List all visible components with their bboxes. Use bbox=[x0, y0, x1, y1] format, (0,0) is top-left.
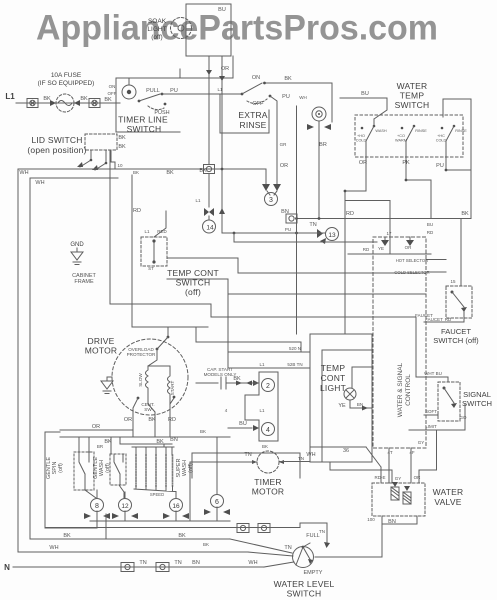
svg-text:RD: RD bbox=[346, 211, 354, 217]
wire into node 2 bbox=[228, 382, 252, 384]
svg-text:RD-E: RD-E bbox=[375, 475, 386, 480]
winding coil 2 bbox=[145, 455, 147, 486]
svg-text:TN: TN bbox=[174, 560, 181, 566]
svg-text:(off): (off) bbox=[58, 463, 64, 473]
motor winding slow bbox=[146, 366, 149, 394]
wire WLS diagonals bbox=[230, 539, 294, 567]
svg-text:L1: L1 bbox=[5, 92, 15, 101]
svg-text:BU: BU bbox=[239, 421, 247, 427]
svg-text:RD: RD bbox=[133, 208, 141, 214]
soak light box bbox=[186, 4, 231, 56]
svg-text:WATER: WATER bbox=[397, 81, 428, 91]
connector CB3 bbox=[204, 165, 215, 174]
winding header bbox=[111, 437, 174, 455]
svg-text:BU: BU bbox=[361, 91, 369, 97]
svg-text:TEMP: TEMP bbox=[400, 91, 425, 101]
node 6 arrows bbox=[204, 509, 230, 515]
svg-text:LIMIT: LIMIT bbox=[425, 424, 437, 429]
svg-text:14: 14 bbox=[206, 225, 214, 232]
svg-text:OR: OR bbox=[124, 417, 132, 423]
wire WSC row1 bbox=[348, 253, 431, 255]
svg-text:SWITCH: SWITCH bbox=[395, 100, 430, 110]
svg-text:PU: PU bbox=[170, 88, 178, 94]
node 14 bbox=[203, 220, 216, 233]
winding footer bbox=[134, 486, 174, 492]
extra rinse box bbox=[220, 94, 269, 133]
svg-text:SWITCH: SWITCH bbox=[176, 278, 211, 288]
wire extra rinse out BK bbox=[266, 83, 332, 122]
gentle wash contacts bbox=[114, 454, 123, 485]
node 12 arrows bbox=[112, 513, 138, 519]
water temp switch outer right bbox=[443, 99, 471, 219]
centrifugal switch bbox=[133, 396, 175, 437]
svg-text:TN: TN bbox=[298, 456, 304, 461]
svg-text:BN: BN bbox=[192, 560, 200, 566]
svg-text:LIGHT: LIGHT bbox=[147, 26, 166, 33]
extra rinse switch bbox=[241, 82, 272, 104]
svg-text:13: 13 bbox=[328, 232, 336, 239]
winding coil 3 bbox=[155, 455, 157, 486]
svg-text:ON: ON bbox=[252, 75, 260, 81]
svg-text:GR: GR bbox=[280, 142, 288, 147]
WTS cell 3 bbox=[441, 125, 456, 157]
WSC entry YE bbox=[345, 201, 390, 255]
svg-text:6: 6 bbox=[215, 499, 219, 506]
svg-text:WATER: WATER bbox=[433, 487, 464, 497]
svg-text:COLD: COLD bbox=[436, 139, 447, 143]
node 13 bbox=[326, 228, 339, 241]
svg-text:WHT BU: WHT BU bbox=[424, 371, 442, 376]
wire timer motor left bbox=[190, 462, 257, 521]
svg-text:DRIVE: DRIVE bbox=[88, 336, 115, 346]
wire run 520 N bbox=[228, 351, 310, 353]
wire N bus bbox=[13, 566, 264, 568]
wire long BK bus bbox=[297, 218, 471, 220]
svg-text:CONTROL: CONTROL bbox=[405, 374, 412, 406]
svg-text:BK: BK bbox=[104, 439, 112, 445]
timer line switch pilot bbox=[122, 78, 136, 99]
svg-text:+HO: +HO bbox=[357, 134, 365, 138]
svg-text:4: 4 bbox=[225, 408, 228, 413]
svg-text:SLOW: SLOW bbox=[138, 373, 143, 387]
valve arrows bbox=[392, 482, 410, 491]
node 14 arrows bbox=[204, 208, 214, 216]
label GENTLE WASH bbox=[93, 457, 111, 479]
svg-text:GND: GND bbox=[70, 242, 84, 248]
svg-text:BR: BR bbox=[319, 142, 327, 148]
gentle spin switch bbox=[74, 452, 94, 490]
svg-text:10: 10 bbox=[117, 163, 123, 168]
svg-text:BK: BK bbox=[203, 542, 209, 547]
svg-text:WATER & SIGNAL: WATER & SIGNAL bbox=[397, 362, 404, 417]
svg-text:BK: BK bbox=[233, 376, 241, 382]
timer line switch contacts bbox=[138, 93, 167, 110]
wire winding links bbox=[119, 485, 176, 498]
node 8 arrows bbox=[84, 513, 110, 519]
svg-text:12: 12 bbox=[121, 503, 129, 510]
node 12 bbox=[119, 499, 132, 512]
svg-text:FULL: FULL bbox=[306, 533, 319, 539]
svg-text:MOTOR: MOTOR bbox=[85, 346, 117, 356]
wire into node 3 bbox=[266, 169, 277, 195]
svg-text:ON: ON bbox=[109, 84, 116, 89]
WTS cell 1 bbox=[361, 125, 376, 157]
svg-text:BK: BK bbox=[178, 533, 186, 539]
svg-text:BK: BK bbox=[63, 533, 71, 539]
svg-text:(IF SO EQUIPPED): (IF SO EQUIPPED) bbox=[38, 80, 95, 87]
svg-text:BK: BK bbox=[104, 97, 112, 103]
svg-text:SPEED: SPEED bbox=[150, 492, 164, 497]
svg-text:4F: 4F bbox=[409, 450, 415, 455]
valve solenoid 2 bbox=[403, 492, 411, 504]
node 13 arrows bbox=[317, 229, 326, 244]
svg-text:8: 8 bbox=[95, 503, 99, 510]
cap arrows bbox=[236, 381, 252, 386]
svg-text:WATER LEVEL: WATER LEVEL bbox=[274, 579, 335, 589]
svg-text:BU: BU bbox=[218, 7, 226, 13]
svg-text:SWITCH: SWITCH bbox=[462, 399, 492, 408]
svg-text:RED: RED bbox=[157, 229, 167, 234]
temp cont light circle bbox=[344, 388, 356, 400]
svg-text:15: 15 bbox=[450, 279, 456, 284]
svg-text:OR: OR bbox=[414, 475, 422, 480]
wire signal feed bbox=[416, 377, 448, 382]
wire L1 feed bbox=[16, 102, 120, 104]
node 9 bbox=[312, 107, 326, 121]
svg-text:RINSE: RINSE bbox=[455, 129, 467, 133]
temp light top wire bbox=[352, 367, 372, 388]
wire left bus 1 bbox=[18, 169, 248, 552]
svg-text:RINSE: RINSE bbox=[240, 120, 267, 130]
wire stair A bbox=[234, 233, 377, 242]
svg-text:BK: BK bbox=[199, 168, 207, 174]
svg-text:(open position): (open position) bbox=[27, 145, 86, 155]
svg-text:RD: RD bbox=[445, 317, 452, 322]
svg-text:4: 4 bbox=[266, 427, 270, 434]
svg-text:BK: BK bbox=[133, 170, 139, 175]
timer motor box bbox=[192, 453, 300, 478]
wire faucet bottom bbox=[424, 321, 464, 323]
wire soak drop 2 bbox=[221, 56, 223, 233]
wire stair D bbox=[110, 304, 416, 377]
wire OR from WTS bbox=[345, 157, 366, 191]
svg-text:BK: BK bbox=[118, 144, 126, 150]
svg-text:OR: OR bbox=[221, 66, 229, 72]
svg-text:(off): (off) bbox=[185, 287, 201, 297]
svg-text:OFF: OFF bbox=[108, 91, 117, 96]
svg-text:+CO: +CO bbox=[397, 134, 405, 138]
temp cont switch feed bbox=[132, 175, 208, 327]
temp cont sensor bbox=[152, 211, 166, 264]
svg-text:N: N bbox=[4, 563, 10, 572]
motor ground bbox=[101, 377, 113, 394]
water temp switch dashed box bbox=[355, 115, 463, 157]
svg-text:TN: TN bbox=[139, 560, 146, 566]
faucet switch contact bbox=[451, 291, 468, 323]
svg-text:FAUCET: FAUCET bbox=[415, 313, 433, 318]
winding coil 5 bbox=[172, 455, 174, 486]
motor winding start bbox=[168, 372, 171, 400]
svg-text:OFF: OFF bbox=[253, 101, 265, 107]
svg-text:WH: WH bbox=[306, 452, 315, 458]
svg-text:GY: GY bbox=[418, 440, 425, 445]
svg-text:WH: WH bbox=[49, 545, 58, 551]
wire node13 feed bbox=[222, 232, 317, 234]
svg-text:GO: GO bbox=[459, 415, 467, 420]
wire left bus 2 bbox=[30, 178, 230, 539]
water signal control box bbox=[373, 237, 426, 448]
timer motor arrows bbox=[252, 460, 284, 464]
svg-text:BR: BR bbox=[97, 444, 104, 449]
water level switch circle bbox=[293, 547, 314, 568]
wire WSC bottom drops bbox=[389, 448, 411, 483]
svg-text:BK: BK bbox=[118, 135, 126, 141]
drive motor circle bbox=[112, 339, 188, 415]
wire run 52B TN bbox=[228, 367, 310, 369]
svg-text:OR: OR bbox=[280, 163, 288, 169]
svg-text:TIMER LINE: TIMER LINE bbox=[118, 115, 168, 125]
WSC arrows top bbox=[381, 240, 414, 246]
svg-text:PU: PU bbox=[282, 94, 290, 100]
wire valve top runs bbox=[310, 447, 392, 483]
svg-text:TEMP CONT: TEMP CONT bbox=[167, 268, 219, 278]
svg-text:START: START bbox=[170, 380, 175, 395]
water temp switch feed BU bbox=[340, 98, 387, 126]
svg-text:YE: YE bbox=[338, 403, 346, 409]
svg-text:ST: ST bbox=[148, 266, 154, 271]
ground bbox=[71, 248, 83, 265]
svg-text:WASH: WASH bbox=[375, 129, 387, 133]
winding coil 1 bbox=[135, 455, 137, 486]
water valve box bbox=[372, 483, 425, 516]
gentle wash switch bbox=[110, 454, 126, 485]
svg-text:OR: OR bbox=[405, 245, 413, 250]
label SUPER WASH bbox=[176, 458, 194, 477]
wire signal right bbox=[409, 404, 465, 430]
wire extra rinse out PU bbox=[270, 96, 277, 184]
connector CB5 bbox=[258, 524, 270, 533]
svg-text:EXTRA: EXTRA bbox=[238, 110, 267, 120]
signal switch contact bbox=[443, 387, 458, 409]
node 2 bbox=[262, 379, 275, 392]
wire cap to node2 bbox=[252, 382, 258, 384]
svg-text:TN: TN bbox=[319, 529, 325, 534]
wire stair E2 bbox=[196, 327, 301, 352]
svg-text:SWITCH: SWITCH bbox=[127, 124, 162, 134]
svg-text:OR: OR bbox=[92, 424, 100, 430]
svg-text:EMPTY: EMPTY bbox=[304, 570, 323, 576]
wire bottom right runs bbox=[300, 523, 327, 544]
temp cont light arrow bbox=[362, 406, 368, 411]
svg-text:L1: L1 bbox=[217, 87, 223, 92]
node 16 arrows bbox=[163, 513, 189, 519]
svg-text:520 N: 520 N bbox=[289, 346, 301, 351]
svg-text:(off): (off) bbox=[105, 463, 111, 473]
svg-text:2: 2 bbox=[266, 383, 270, 390]
svg-text:L1: L1 bbox=[259, 362, 265, 367]
node 6 bbox=[211, 495, 224, 508]
svg-text:BK: BK bbox=[262, 444, 268, 449]
svg-text:L1: L1 bbox=[259, 408, 265, 413]
svg-text:MODELS ONLY: MODELS ONLY bbox=[204, 372, 237, 377]
svg-text:16: 16 bbox=[172, 503, 180, 510]
WTS cell 2 bbox=[401, 125, 416, 157]
windings bus top bbox=[60, 430, 230, 437]
wire cap feed bbox=[196, 382, 218, 384]
svg-text:WH: WH bbox=[35, 180, 44, 186]
wire lower bus 521 bbox=[90, 520, 230, 522]
wire stair B bbox=[167, 258, 426, 273]
wire stair E bbox=[296, 106, 298, 219]
svg-text:FRAME: FRAME bbox=[74, 279, 94, 285]
svg-text:BK: BK bbox=[284, 76, 292, 82]
temp light inner lines bbox=[322, 350, 372, 462]
svg-text:PUSH: PUSH bbox=[154, 110, 169, 116]
svg-text:SW: SW bbox=[144, 407, 152, 412]
svg-text:RINSE: RINSE bbox=[415, 129, 427, 133]
timer line switch box bbox=[116, 56, 233, 132]
wire PU from WTS bbox=[446, 157, 471, 170]
svg-text:(off): (off) bbox=[151, 34, 162, 41]
wire node drops bbox=[97, 437, 217, 521]
wire stair C bbox=[167, 279, 426, 368]
svg-text:GY: GY bbox=[395, 476, 402, 481]
svg-text:PU: PU bbox=[436, 163, 444, 169]
node 2/4 box bbox=[245, 372, 278, 441]
svg-text:BK: BK bbox=[43, 96, 51, 102]
wire temp light feed bbox=[344, 191, 346, 334]
wire node 9 drop bbox=[318, 121, 320, 219]
svg-text:RD: RD bbox=[168, 417, 176, 423]
svg-text:SOAK: SOAK bbox=[148, 18, 167, 25]
temp light outer box bbox=[310, 334, 372, 462]
WSC entry drops bbox=[385, 237, 410, 240]
svg-text:MOTOR: MOTOR bbox=[252, 487, 284, 497]
wire into node 4 bbox=[228, 427, 252, 429]
junction dots bbox=[221, 168, 448, 235]
node 8 bbox=[91, 499, 104, 512]
svg-text:L1: L1 bbox=[144, 229, 150, 234]
wire PK from WTS bbox=[406, 157, 431, 219]
svg-text:BN: BN bbox=[388, 519, 396, 525]
capacitor C1 bbox=[221, 377, 234, 389]
svg-text:WH: WH bbox=[19, 170, 28, 176]
windings outer box left bbox=[45, 432, 97, 528]
faucet switch box bbox=[446, 286, 472, 318]
svg-text:VALVE: VALVE bbox=[434, 497, 461, 507]
svg-text:OR: OR bbox=[359, 160, 367, 166]
svg-text:SIGNAL: SIGNAL bbox=[463, 390, 491, 399]
svg-text:COLD: COLD bbox=[356, 139, 367, 143]
svg-text:YE: YE bbox=[378, 246, 384, 251]
svg-text:(off): (off) bbox=[188, 463, 194, 473]
svg-text:TN: TN bbox=[309, 222, 316, 228]
svg-text:17: 17 bbox=[386, 231, 392, 236]
svg-text:LIGHT: LIGHT bbox=[320, 383, 346, 393]
svg-text:WH: WH bbox=[299, 95, 307, 100]
svg-text:TIMER: TIMER bbox=[254, 477, 281, 487]
svg-text:36: 36 bbox=[343, 448, 349, 454]
svg-text:SWITCH (off): SWITCH (off) bbox=[433, 336, 479, 345]
winding coil 4 bbox=[165, 455, 167, 486]
connector CB8 bbox=[286, 214, 297, 223]
WLS contacts bbox=[296, 543, 313, 565]
overload protector bbox=[148, 336, 169, 366]
svg-text:L1: L1 bbox=[195, 198, 201, 203]
node 9 arrows bbox=[307, 124, 331, 130]
svg-text:+HC: +HC bbox=[437, 134, 445, 138]
svg-text:100: 100 bbox=[367, 517, 375, 522]
wire stair F bbox=[296, 219, 298, 335]
label GENTLE SPIN bbox=[46, 457, 64, 479]
svg-text:WH: WH bbox=[248, 560, 257, 566]
svg-text:TEMP: TEMP bbox=[321, 363, 346, 373]
wire node14 drop bbox=[208, 174, 210, 207]
wire lid to left bus WH bbox=[18, 168, 266, 170]
svg-text:PU: PU bbox=[285, 227, 291, 232]
connector CB4 bbox=[237, 524, 249, 533]
connector CB7 bbox=[156, 563, 169, 572]
svg-text:LID SWITCH: LID SWITCH bbox=[31, 135, 82, 145]
svg-text:BK: BK bbox=[148, 417, 156, 423]
wire valve bottom loop bbox=[315, 516, 417, 557]
wire signal bottom bbox=[424, 414, 438, 416]
node 3 arrows bbox=[262, 184, 281, 191]
svg-text:BU: BU bbox=[427, 222, 433, 227]
svg-text:BN: BN bbox=[357, 402, 363, 407]
svg-text:COLD SELECTOR: COLD SELECTOR bbox=[394, 270, 429, 275]
timer motor circle bbox=[257, 451, 279, 473]
svg-text:RD: RD bbox=[427, 230, 434, 235]
svg-text:CONT: CONT bbox=[321, 373, 346, 383]
node L1 bbox=[0, 0, 1, 1]
wire valve feed right bbox=[419, 430, 437, 483]
svg-text:52B TN: 52B TN bbox=[287, 362, 302, 367]
svg-text:RD: RD bbox=[363, 247, 370, 252]
svg-text:BK: BK bbox=[80, 96, 88, 102]
wire faucet feed 1 bbox=[426, 259, 446, 261]
wire faucet feed 2 bbox=[426, 271, 446, 273]
node 2 arrows bbox=[253, 380, 259, 386]
valve solenoid 1 bbox=[391, 487, 399, 500]
svg-text:3: 3 bbox=[269, 197, 273, 204]
svg-text:BK: BK bbox=[156, 439, 164, 445]
wire timer switch output bbox=[162, 69, 242, 94]
wire lid lower WH bbox=[30, 177, 118, 179]
svg-text:TN: TN bbox=[284, 545, 291, 551]
svg-text:BN: BN bbox=[281, 209, 289, 215]
svg-text:BK: BK bbox=[461, 211, 469, 217]
connector CB6 bbox=[121, 563, 134, 572]
svg-text:PK: PK bbox=[402, 160, 410, 166]
svg-text:FAUCET: FAUCET bbox=[441, 327, 471, 336]
svg-text:PROTECTOR: PROTECTOR bbox=[127, 352, 156, 357]
connector CB1 bbox=[27, 99, 38, 108]
gentle spin contacts bbox=[79, 437, 96, 498]
node 16 bbox=[170, 499, 183, 512]
signal switch box bbox=[438, 382, 460, 421]
connector CB2 bbox=[89, 99, 100, 108]
arrow on node13 feed bbox=[219, 208, 225, 214]
node 4 arrows bbox=[253, 425, 259, 431]
svg-text:AppliancePartsPros.com: AppliancePartsPros.com bbox=[36, 9, 438, 48]
wire into node 14 bbox=[208, 216, 210, 220]
temp cont light bottom bbox=[350, 400, 372, 408]
wire motor top feed bbox=[167, 327, 169, 336]
lid switch box bbox=[85, 134, 117, 150]
wire winding joins bbox=[148, 366, 170, 404]
svg-text:BK: BK bbox=[166, 170, 174, 176]
